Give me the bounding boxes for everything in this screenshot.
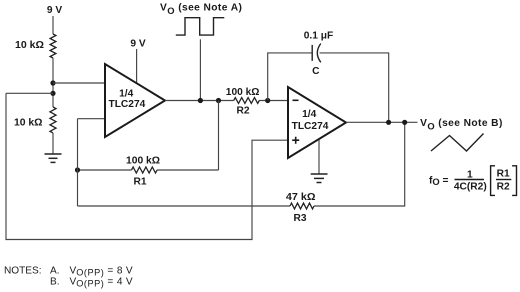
svg-text:VO (see Note A): VO (see Note A) (160, 3, 242, 16)
wire capacitor to output loop right (320, 53, 389, 122)
ground (divider) (45, 154, 62, 162)
square wave symbol (176, 18, 225, 35)
svg-text:100 kΩ: 100 kΩ (126, 156, 160, 167)
node integrator input dot (265, 98, 270, 103)
notes text (4, 266, 133, 289)
wire R1 feedback vertical (218, 101, 220, 171)
capacitor C plate curved (317, 44, 321, 63)
wire node A to U1a noninverting input (53, 82, 106, 84)
svg-text:B.: B. (50, 277, 60, 288)
svg-text:TLC274: TLC274 (292, 121, 329, 132)
resistor 10k upper (divider) (50, 34, 56, 58)
capacitor C plate flat (311, 45, 313, 61)
svg-text:R3: R3 (293, 213, 306, 224)
U1b minus sign (293, 99, 299, 101)
wire left rail to U1b noninverting input (6, 93, 289, 239)
svg-text:1: 1 (467, 169, 473, 180)
wire capacitor feedback loop left (268, 53, 312, 101)
resistor R1 (132, 167, 158, 173)
svg-text:4C(R2): 4C(R2) (454, 182, 487, 193)
node U1a output dot (198, 98, 203, 103)
wire U1a output row (165, 100, 289, 102)
resistor R3 (290, 203, 314, 209)
svg-text:0.1 μF: 0.1 μF (304, 31, 333, 42)
svg-text:1/4: 1/4 (119, 89, 133, 100)
svg-text:10 kΩ: 10 kΩ (14, 118, 43, 129)
node B junction dot (50, 91, 55, 96)
wire 9V to R top (52, 16, 54, 34)
wire U1a inverting input (78, 118, 106, 120)
resistor R2 (234, 98, 260, 104)
node output dot 1 (386, 120, 391, 125)
node R1 left dot (75, 167, 80, 172)
svg-text:10 kΩ: 10 kΩ (15, 40, 44, 51)
wire square wave output down to node (199, 39, 201, 100)
wire U1b output (346, 121, 418, 123)
svg-text:TLC274: TLC274 (108, 99, 145, 110)
wire R1 row (78, 169, 219, 171)
ground (U1b) (311, 174, 328, 183)
wire R lower to ground (52, 133, 54, 154)
svg-text:fO =: fO = (429, 176, 449, 187)
wire U1b ground stem (318, 140, 320, 174)
wire U1a inverting to R3 row vertical (77, 119, 79, 206)
triangle wave symbol (431, 134, 484, 152)
resistor 10k lower (divider) (50, 107, 56, 133)
svg-text:1/4: 1/4 (302, 109, 316, 120)
svg-text:9 V: 9 V (47, 5, 62, 16)
node R1 feedback dot (216, 98, 221, 103)
svg-text:100 kΩ: 100 kΩ (226, 87, 260, 98)
svg-text:C: C (312, 66, 320, 77)
wire R bottom to node A (52, 58, 54, 107)
U1b plus sign (292, 137, 299, 144)
svg-text:47 kΩ: 47 kΩ (286, 192, 316, 203)
node A junction dot (50, 80, 55, 85)
node output dot 2 (402, 120, 407, 125)
wire 9V to U1a top edge (136, 49, 138, 83)
svg-text:9 V: 9 V (130, 39, 145, 50)
svg-text:A.: A. (50, 266, 60, 277)
svg-text:R2: R2 (236, 106, 249, 117)
svg-text:R1: R1 (133, 176, 146, 187)
wire R3 row (78, 122, 405, 206)
wire node B to left rail (6, 92, 53, 94)
formula fO (429, 166, 517, 196)
svg-text:VO(PP) = 4 V: VO(PP) = 4 V (70, 277, 134, 289)
svg-text:NOTES:: NOTES: (4, 266, 42, 277)
op-amp U1a (105, 64, 165, 137)
svg-text:VO (see Note B): VO (see Note B) (420, 118, 503, 132)
svg-text:R1: R1 (497, 168, 510, 179)
op-amp U1b (288, 87, 346, 158)
svg-text:VO(PP) = 8 V: VO(PP) = 8 V (70, 266, 134, 278)
svg-text:R2: R2 (497, 182, 510, 193)
